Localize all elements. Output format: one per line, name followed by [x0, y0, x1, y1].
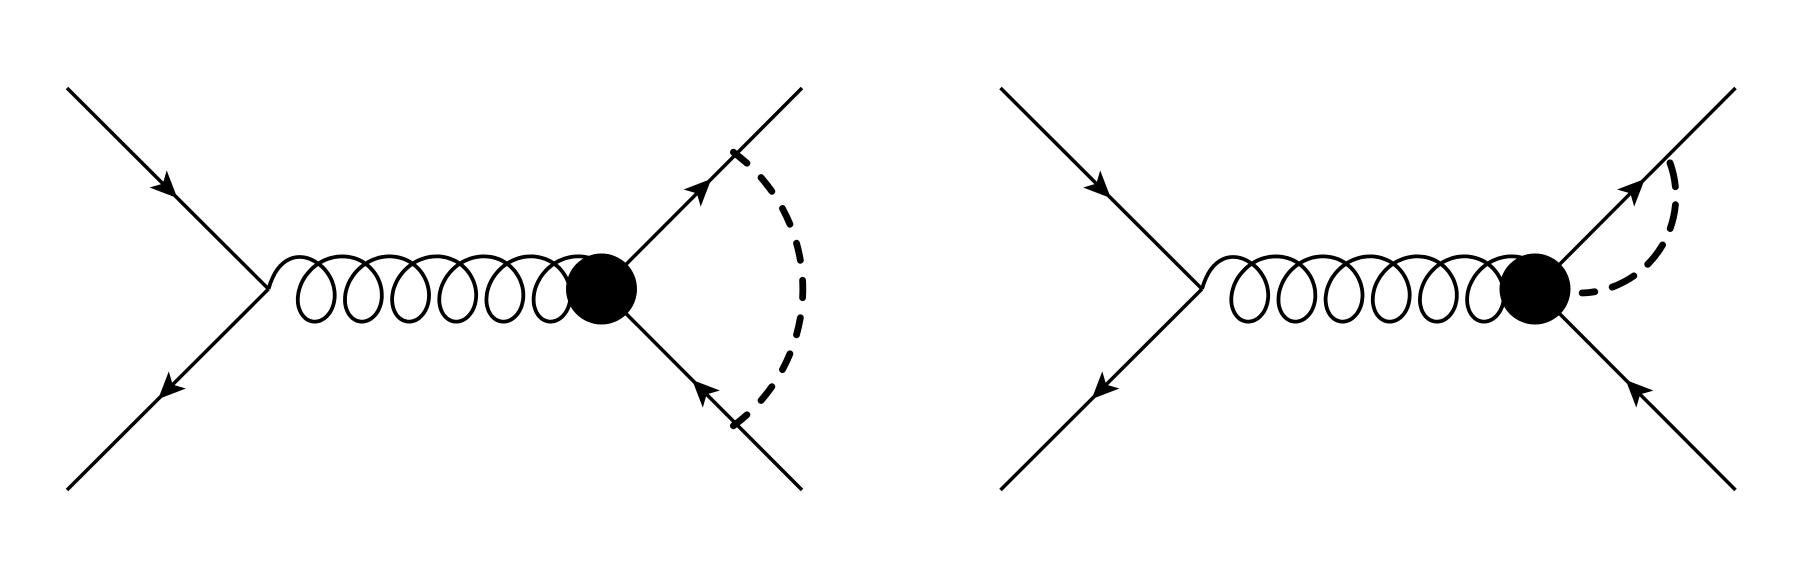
arrow on outgoing quark (diagram 2)	[1617, 170, 1653, 206]
effective vertex blob (diagram 2)	[1500, 254, 1571, 325]
arrow on incoming quark (diagram 2)	[1083, 170, 1119, 206]
arrow on outgoing antiquark (diagram 2)	[1617, 371, 1653, 407]
arrow on outgoing antiquark (diagram 1)	[684, 371, 720, 407]
arrow on incoming quark (diagram 1)	[150, 170, 186, 206]
outgoing quark line (top-right) (diagram 1)	[602, 88, 803, 289]
arrow on outgoing quark (diagram 1)	[684, 170, 720, 206]
incoming antiquark line (bottom-left) (diagram 2)	[1001, 289, 1203, 490]
outgoing quark line (top-right) (diagram 2)	[1535, 88, 1736, 289]
incoming quark line (top-left) (diagram 2)	[1001, 88, 1203, 289]
outgoing antiquark line (bottom-right) (diagram 2)	[1535, 289, 1736, 490]
outgoing antiquark line (bottom-right) (diagram 1)	[602, 289, 803, 490]
gluon propagator (diagram 2)	[1202, 256, 1546, 321]
dashed scalar loop arc (diagram 2)	[1582, 156, 1676, 293]
arrow on incoming antiquark (diagram 2)	[1083, 371, 1119, 407]
dashed scalar exchange arc (diagram 1)	[733, 152, 802, 426]
incoming quark line (top-left) (diagram 1)	[67, 88, 269, 289]
gluon propagator (diagram 1)	[269, 256, 613, 321]
incoming antiquark line (bottom-left) (diagram 1)	[67, 289, 269, 490]
effective vertex blob (diagram 1)	[566, 254, 637, 325]
arrow on incoming antiquark (diagram 1)	[150, 371, 186, 407]
